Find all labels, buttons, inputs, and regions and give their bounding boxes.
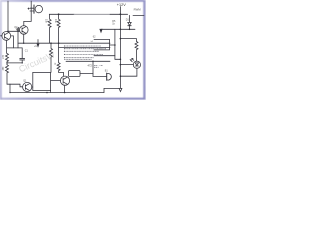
- svg-text:RWM: RWM: [134, 8, 142, 12]
- svg-text:+12V: +12V: [117, 3, 126, 7]
- svg-text:472: 472: [88, 64, 93, 68]
- svg-text:4k7: 4k7: [1, 55, 4, 60]
- svg-text:1k2: 1k2: [1, 67, 4, 72]
